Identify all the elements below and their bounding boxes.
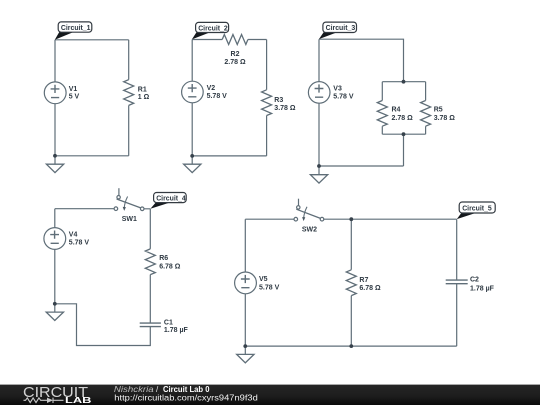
resistor R6 <box>145 249 155 275</box>
node flag Circuit_2 <box>192 22 229 39</box>
wire circuit4 left <box>54 209 56 304</box>
svg-text:6.78 Ω: 6.78 Ω <box>159 263 181 270</box>
node flag Circuit_5 <box>457 202 495 219</box>
ground circuit2 <box>184 156 201 173</box>
svg-text:5.78 V: 5.78 V <box>69 240 90 247</box>
footer logo waveform <box>24 398 64 403</box>
svg-text:SW1: SW1 <box>122 216 137 223</box>
wire circuit4 bottom <box>55 304 151 346</box>
svg-text:C1: C1 <box>164 320 173 327</box>
wire circuit3 parallel top bar <box>382 82 425 101</box>
resistor R3 <box>262 90 272 116</box>
capacitor C2 <box>446 280 468 284</box>
wire circuit2 top-right <box>248 40 267 90</box>
svg-text:V4: V4 <box>69 231 78 238</box>
svg-text:5.78 V: 5.78 V <box>333 94 354 101</box>
svg-text:R5: R5 <box>434 106 443 113</box>
footer bar <box>0 385 540 405</box>
svg-text:5.78 V: 5.78 V <box>207 93 228 100</box>
svg-text:5.78 V: 5.78 V <box>259 285 280 292</box>
node junction circuit5 bottom-middle <box>349 344 353 348</box>
svg-text:R1: R1 <box>138 86 147 93</box>
node junction circuit1 bottom-left <box>53 154 57 158</box>
node junction circuit2 bottom-left <box>190 154 194 158</box>
wire circuit2 bottom <box>192 155 266 157</box>
svg-text:R3: R3 <box>274 97 283 104</box>
svg-text:V5: V5 <box>259 276 268 283</box>
ground circuit5 <box>237 346 254 363</box>
wire circuit4 top <box>55 209 151 249</box>
wire circuit1 bottom <box>55 155 129 157</box>
svg-text:3.78 Ω: 3.78 Ω <box>434 115 456 122</box>
voltage source V3 <box>308 82 330 104</box>
wire circuit3 left <box>318 39 320 166</box>
node junction circuit4 bottom-left <box>53 302 57 306</box>
wire circuit3 bottom <box>319 134 404 166</box>
svg-text:LAB: LAB <box>65 396 92 405</box>
wire circuit3 parallel bottom bar <box>382 126 425 134</box>
resistor R7 <box>346 270 356 296</box>
svg-text:R4: R4 <box>392 106 401 113</box>
wire circuit1 left lower <box>54 104 56 156</box>
svg-text:2.78 Ω: 2.78 Ω <box>224 59 246 66</box>
wire circuit1 right upper <box>128 40 130 80</box>
wire circuit2 left lower <box>191 103 193 156</box>
wire circuit5 right branch <box>456 219 458 346</box>
wire circuit3 top <box>319 39 404 81</box>
svg-text:1.78 µF: 1.78 µF <box>470 285 495 292</box>
resistor R5 <box>421 101 431 127</box>
wire circuit2 top-left <box>192 40 222 82</box>
svg-text:R2: R2 <box>231 51 240 58</box>
svg-text:Circuit_1: Circuit_1 <box>61 25 91 32</box>
wire circuit2 right lower <box>266 116 268 156</box>
svg-text:6.78 Ω: 6.78 Ω <box>359 285 381 292</box>
svg-text:C2: C2 <box>470 277 479 284</box>
node flag Circuit_4 <box>150 193 186 209</box>
svg-text:R7: R7 <box>359 277 368 284</box>
node junction circuit3 parallel top <box>402 80 406 84</box>
resistor R4 <box>377 101 387 127</box>
resistor R1 <box>124 80 134 106</box>
svg-text:2.78 Ω: 2.78 Ω <box>392 115 414 122</box>
svg-text:V1: V1 <box>69 86 78 93</box>
svg-text:R6: R6 <box>159 255 168 262</box>
capacitor C1 <box>140 323 161 327</box>
wire circuit5 top <box>245 218 456 220</box>
wire circuit1 left upper <box>54 40 56 82</box>
node junction circuit5 top-middle <box>349 217 353 221</box>
svg-text:5 V: 5 V <box>69 94 80 101</box>
wire circuit5 middle branch <box>350 219 352 346</box>
svg-text:1.78 µF: 1.78 µF <box>164 327 189 334</box>
node flag Circuit_3 <box>319 22 357 39</box>
node junction circuit3 parallel bottom <box>402 132 406 136</box>
svg-text:Circuit_3: Circuit_3 <box>326 25 356 32</box>
voltage source V1 <box>44 82 66 104</box>
voltage source V2 <box>182 81 204 103</box>
svg-text:Circuit_5: Circuit_5 <box>462 205 492 212</box>
svg-text:1 Ω: 1 Ω <box>138 94 150 101</box>
voltage source V5 <box>235 272 257 294</box>
resistor R2 <box>222 35 248 45</box>
switch SW2 <box>294 199 324 221</box>
ground circuit3 <box>310 166 327 183</box>
wire circuit1 right lower <box>128 105 130 155</box>
svg-text:Circuit_4: Circuit_4 <box>156 195 186 202</box>
svg-text:3.78 Ω: 3.78 Ω <box>274 105 296 112</box>
svg-text:SW2: SW2 <box>302 226 317 233</box>
svg-text:V2: V2 <box>207 85 216 92</box>
voltage source V4 <box>44 228 66 250</box>
wire circuit4 right mid <box>149 275 151 323</box>
wire circuit5 left <box>244 219 246 346</box>
svg-text:Circuit_2: Circuit_2 <box>198 25 228 32</box>
ground circuit1 <box>46 156 63 173</box>
wire circuit1 top <box>55 39 129 41</box>
node flag Circuit_1 <box>55 22 92 40</box>
switch SW1 <box>114 188 144 211</box>
node junction circuit5 bottom-left <box>243 344 247 348</box>
svg-text:V3: V3 <box>333 85 342 92</box>
svg-text:http://circuitlab.com/cxyrs947: http://circuitlab.com/cxyrs947n9f3d <box>114 393 257 402</box>
node junction circuit3 bottom-left <box>317 164 321 168</box>
ground circuit4 <box>46 304 63 321</box>
wire circuit5 bottom <box>245 345 456 347</box>
